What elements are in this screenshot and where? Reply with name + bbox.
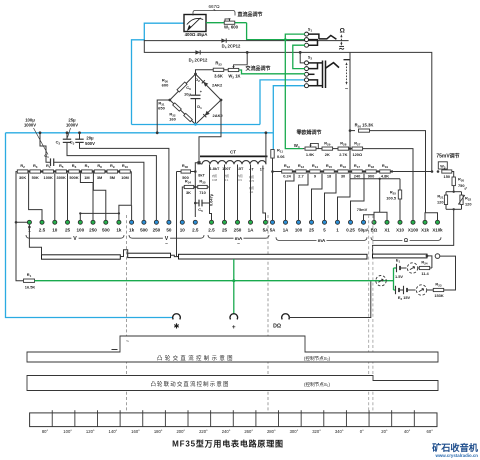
resistor R20 750 [452, 177, 455, 186]
svg-text:S1: S1 [308, 28, 313, 33]
svg-text:X1: X1 [384, 227, 390, 232]
svg-text:10: 10 [180, 227, 186, 232]
svg-text:R19: R19 [382, 163, 388, 169]
contacts DC current blue [270, 220, 274, 224]
svg-text:500K: 500K [69, 175, 78, 180]
svg-text:120Ω: 120Ω [352, 152, 362, 157]
svg-text:R24: R24 [421, 259, 427, 265]
svg-text:R17: R17 [354, 163, 360, 169]
resistor R17 240 [352, 170, 363, 173]
wire 5A DC contact [272, 172, 274, 221]
svg-text:75mV: 75mV [357, 207, 368, 212]
svg-text:R1: R1 [27, 272, 32, 278]
transformer core bar [200, 155, 268, 157]
svg-text:3M: 3M [97, 175, 102, 180]
svg-text:R15: R15 [326, 163, 332, 169]
wire 5A AC contact to winding end [263, 166, 266, 221]
svg-text:R10: R10 [122, 163, 128, 169]
svg-text:1T: 1T [260, 168, 265, 172]
capacitor C6 10uF bridge center [195, 74, 197, 95]
svg-text:100: 100 [295, 227, 303, 232]
svg-text:R21: R21 [437, 193, 443, 199]
svg-text:280°: 280° [267, 429, 276, 434]
resistor R11 0.06 shunt [272, 158, 274, 172]
dashed connector circle E1 [407, 263, 417, 273]
wire cyan S2 contact5 to common bus [273, 86, 305, 151]
svg-text:W4: W4 [294, 143, 300, 149]
svg-text:E1: E1 [396, 258, 401, 264]
cam diagram bar AC-DC control [27, 336, 438, 362]
diode D4 2CP12 line [144, 39, 348, 42]
transformer left end junction [199, 163, 202, 164]
cam diagram bar linked control [27, 376, 438, 391]
brace DC mA [276, 237, 317, 240]
svg-text:0.08: 0.08 [212, 178, 218, 182]
resistor R30 600 top-left arm [177, 82, 187, 92]
brace AC mA [208, 235, 234, 238]
resistor R4 100K [43, 170, 54, 173]
svg-text:3.6K: 3.6K [214, 73, 223, 78]
wire junction to 25V contact [67, 173, 69, 220]
svg-text:R22: R22 [465, 195, 471, 201]
svg-text:2.7K: 2.7K [339, 152, 347, 157]
svg-text:100.5: 100.5 [386, 196, 397, 201]
svg-text:1k: 1k [116, 227, 122, 232]
svg-text:4.8K: 4.8K [381, 174, 389, 179]
wire C1 to AC 500 contact [54, 162, 144, 220]
svg-text:矿石收音机: 矿石收音机 [432, 442, 479, 453]
svg-text:C1: C1 [44, 153, 49, 159]
dashed separator V sections [126, 215, 128, 412]
wire junction to 10V contact [54, 173, 56, 220]
svg-text:8kT: 8kT [198, 174, 205, 178]
wire 5mA contact staircase [325, 172, 337, 221]
contacts AC voltage blue [130, 220, 134, 224]
bridge junction dots [194, 73, 197, 76]
svg-text:V: V [165, 236, 169, 242]
resistor R3 50K [30, 170, 41, 173]
svg-text:60°: 60° [427, 429, 434, 434]
svg-text:10M: 10M [121, 175, 129, 180]
svg-text:650: 650 [158, 106, 165, 111]
wire X1k X10k bracket [425, 213, 438, 220]
svg-text:内阻: 内阻 [212, 174, 218, 178]
svg-text:0.76: 0.76 [249, 179, 255, 183]
diode D1 2AK2 bottom-right arm [203, 111, 210, 118]
svg-text:C6: C6 [186, 85, 191, 91]
resistor R7 1M [82, 170, 93, 173]
capacitor C2 25uF 1000V [66, 133, 68, 139]
battery E2 15V [394, 289, 396, 291]
wire BOhm X1 bracket [374, 212, 387, 220]
svg-text:1000V: 1000V [66, 123, 78, 128]
brace AC volts [129, 235, 163, 238]
wire bridge right vertex down to transformer [199, 100, 221, 163]
diode D3 2CP12 line [144, 41, 247, 53]
svg-text:50μA: 50μA [358, 227, 370, 232]
svg-text:~: ~ [165, 242, 168, 247]
wire R33 to W2 [224, 69, 228, 71]
svg-text:R13: R13 [298, 163, 304, 169]
svg-text:DΩ: DΩ [273, 323, 281, 329]
resistor R2 30K [17, 170, 28, 173]
resistor R24 11.4 [418, 267, 419, 269]
svg-text:(控制节点S₁): (控制节点S₁) [304, 381, 331, 388]
wire 1mA contact staircase [338, 179, 351, 220]
svg-text:W2 1K: W2 1K [228, 73, 240, 79]
svg-text:C2: C2 [56, 140, 61, 146]
svg-text:内阻: 内阻 [237, 174, 243, 178]
terminal circle bar4 [435, 254, 440, 259]
wire 25mA contact staircase [312, 172, 323, 221]
resistor R15 18 [324, 170, 335, 173]
svg-text:20°: 20° [381, 429, 388, 434]
svg-text:500: 500 [140, 227, 148, 232]
svg-text:100T: 100T [222, 167, 231, 171]
potentiometer W4 1.9K [303, 148, 304, 150]
svg-text:内阻: 内阻 [249, 175, 255, 179]
svg-text:0°: 0° [360, 429, 364, 434]
svg-text:200°: 200° [176, 429, 185, 434]
svg-text:1A: 1A [248, 227, 255, 232]
dashed connector circle on bus [376, 276, 386, 286]
switch S2 rotor bars [322, 61, 324, 89]
svg-text:20μ: 20μ [86, 135, 94, 140]
wire cyan meter-minus to bridge bottom and S2 contact4 [132, 124, 261, 126]
battery E1 1.5V [394, 267, 397, 269]
svg-text:600: 600 [162, 83, 169, 88]
svg-text:2.5: 2.5 [192, 227, 199, 232]
wire staircase to 250V contact [80, 172, 93, 221]
svg-text:180°: 180° [154, 429, 163, 434]
wire D3 node to right side vertical [247, 52, 432, 171]
resistor R18 900 [366, 170, 377, 173]
wire cyan left rail down to common jack [6, 133, 174, 318]
svg-text:500V: 500V [85, 141, 95, 146]
wire cyan common bus horizontal [6, 132, 274, 134]
svg-text:11.4: 11.4 [421, 271, 429, 276]
resistor R25 100.5 [399, 179, 401, 190]
svg-text:220°: 220° [199, 429, 208, 434]
resistor R9 5M [107, 170, 118, 173]
brace ohms [371, 237, 402, 240]
S2 range arrow dashed [346, 64, 348, 84]
svg-text:R12: R12 [284, 163, 290, 169]
svg-text:30K: 30K [19, 175, 26, 180]
svg-text:250: 250 [89, 227, 97, 232]
svg-text:400Ω 45μA: 400Ω 45μA [185, 32, 209, 37]
svg-text:R2: R2 [20, 163, 25, 169]
resistor R35 710 [195, 186, 198, 188]
bridge rectifier arms [170, 74, 221, 124]
bar1 to bar2 jog [120, 250, 127, 257]
svg-text:+: + [232, 324, 236, 331]
wire bridge top to R33 [196, 70, 214, 74]
svg-text:240: 240 [354, 174, 361, 179]
wire DOhm jack riser [289, 281, 371, 317]
wire 0.25mA contact staircase [351, 172, 365, 221]
wire 1V contact to bar1 [29, 225, 41, 255]
svg-text:25: 25 [65, 227, 71, 232]
svg-text:120: 120 [437, 200, 444, 205]
resistor R5 300K [56, 170, 67, 173]
switch S1 contact bars [309, 34, 319, 39]
contacts DC voltage green [27, 220, 31, 224]
svg-text:75mV调节: 75mV调节 [436, 153, 459, 160]
svg-text:E2 15V: E2 15V [398, 295, 411, 301]
svg-text:10μ: 10μ [184, 91, 191, 96]
svg-text:710: 710 [199, 190, 206, 195]
resistor R14 9 [310, 170, 321, 173]
wire 8kT node down through R36 chain [195, 163, 199, 217]
wire R2 left to 1V contact [16, 172, 27, 223]
svg-text:140°: 140° [109, 429, 118, 434]
jack DOhm [282, 314, 290, 320]
wire R25 line [350, 178, 400, 180]
svg-text:X100: X100 [408, 227, 419, 232]
potentiometer W1 600 DC calibration [224, 21, 235, 24]
svg-text:www.crystalradio.cn: www.crystalradio.cn [434, 453, 478, 458]
wire green long vertical to W4 zero-ohm pot [285, 40, 303, 149]
capacitor C5 0.047uF [195, 202, 199, 204]
wire bridge left vertex to common bus [157, 100, 170, 133]
wire C2 to AC 250V contact staircase [67, 142, 156, 220]
brace DC volts [26, 235, 71, 238]
svg-text:0.1: 0.1 [225, 178, 229, 182]
svg-text:1.5V: 1.5V [395, 274, 403, 279]
switch wafer bar 2 [128, 253, 171, 257]
angle scale bar [30, 413, 437, 427]
svg-text:5A: 5A [270, 227, 276, 232]
wire DC voltage divider row [17, 171, 132, 173]
svg-text:2AK2: 2AK2 [213, 113, 224, 118]
wire green plus jack to bar3 [233, 259, 235, 314]
svg-text:50: 50 [166, 227, 172, 232]
wire R10 right to 1kV contact [119, 172, 131, 221]
contacts resistance green [372, 220, 376, 224]
svg-text:1.9K: 1.9K [306, 152, 314, 157]
svg-text:零欧姆调节: 零欧姆调节 [296, 129, 321, 136]
svg-text:R26 15.3K: R26 15.3K [355, 122, 374, 128]
svg-text:R16: R16 [340, 163, 346, 169]
switch S1 arm [319, 35, 337, 39]
wire junction to 2.5V contact [29, 173, 42, 220]
svg-text:160°: 160° [131, 429, 140, 434]
capacitor C1 100uF 1000V on AC 1kV line [40, 133, 51, 162]
wire C3 to AC 50V contact staircase [80, 142, 169, 220]
switch S2 arm [326, 63, 340, 69]
jack plus [230, 314, 238, 320]
resistor R28 2.7K [333, 148, 338, 150]
resistor 150 [442, 170, 452, 173]
resistor R12 0.24 [282, 170, 293, 173]
svg-text:300K: 300K [57, 175, 66, 180]
diode D2 2AK2 top-right arm [202, 80, 209, 87]
wire 150 to R20 [452, 172, 454, 178]
svg-text:50K: 50K [32, 175, 39, 180]
svg-text:340°: 340° [335, 429, 344, 434]
svg-text:R8: R8 [97, 163, 102, 169]
wire tie line 100V to 1kV node [80, 212, 119, 214]
svg-text:0.9: 0.9 [238, 178, 242, 182]
switch S2 contact bars [309, 62, 323, 64]
jack common star [173, 314, 181, 320]
potentiometer W2 1K AC calibration [228, 68, 239, 71]
svg-text:1.8kT: 1.8kT [210, 167, 220, 171]
svg-text:40°: 40° [404, 429, 411, 434]
switch wafer bar 4 [373, 254, 428, 258]
resistor R32 160 lower-left arm [184, 113, 193, 121]
wire R24 right lead [430, 267, 432, 269]
svg-text:X10k: X10k [432, 227, 443, 232]
svg-text:凸轮交直流控制示意图: 凸轮交直流控制示意图 [157, 354, 235, 362]
resistor R34 3K [182, 187, 184, 220]
svg-text:D1: D1 [197, 104, 202, 110]
svg-text:凸轮联动交直流控制示意图: 凸轮联动交直流控制示意图 [150, 380, 229, 388]
svg-text:~: ~ [126, 340, 129, 345]
svg-text:R23: R23 [435, 281, 441, 287]
wire W4 row to X100 contact [363, 149, 413, 220]
wire R36 left down to switch bar3 [177, 172, 179, 257]
wire D3 node down to W2 wiper [246, 52, 248, 64]
transformer winding [202, 161, 266, 165]
svg-text:120°: 120° [86, 429, 95, 434]
dashed connector circle E2 [416, 285, 426, 295]
switch S1 contacts [305, 32, 309, 36]
svg-text:160: 160 [169, 117, 176, 122]
svg-text:W3: W3 [440, 165, 445, 170]
svg-text:mA: mA [318, 238, 326, 244]
resistor R36 500 [177, 171, 181, 173]
svg-text:3K: 3K [186, 190, 191, 195]
wire battery bridge to switch bar4 [373, 209, 454, 254]
resistor R13 2.7 [296, 170, 307, 173]
svg-text:直流品调节: 直流品调节 [237, 11, 262, 18]
svg-text:240°: 240° [222, 429, 231, 434]
svg-text:2.7: 2.7 [298, 174, 303, 179]
wire bar4 to battery branch [426, 255, 429, 258]
wire 1A DC contact staircase [286, 172, 295, 221]
S1 range arrow dashed [340, 36, 342, 44]
resistor R29 2K [316, 148, 322, 150]
svg-text:交流品调节: 交流品调节 [245, 65, 270, 72]
resistor R31 650 lower-left arm [173, 103, 182, 111]
svg-text:0.06: 0.06 [277, 154, 285, 159]
resistor R1 16.5K [16, 222, 23, 280]
wire shunt row [273, 171, 433, 173]
contacts AC current green [209, 220, 213, 224]
switch S2 contacts [305, 61, 309, 65]
svg-text:2.5: 2.5 [39, 227, 46, 232]
wire row to 150 resistor [431, 170, 434, 173]
wire 100V contact stub [79, 213, 81, 220]
svg-text:X1k: X1k [421, 227, 429, 232]
svg-text:1000V: 1000V [24, 123, 36, 128]
svg-text:320°: 320° [312, 429, 321, 434]
svg-text:CT: CT [230, 149, 236, 154]
svg-text:300°: 300° [290, 429, 299, 434]
wire green meter plus through W1 to switches [206, 22, 247, 24]
svg-text:500: 500 [102, 227, 110, 232]
wire right vertical from D3-D4 node down [349, 52, 351, 178]
svg-text:1A: 1A [283, 227, 289, 232]
svg-text:R28: R28 [340, 140, 346, 146]
svg-text:R5: R5 [59, 163, 64, 169]
svg-text:R20: R20 [458, 176, 464, 182]
svg-text:2.5: 2.5 [208, 227, 215, 232]
transformer 2.5mA tap via R35 node [210, 165, 212, 221]
resistor R26 15.3K zero ohm branch [350, 130, 355, 132]
svg-text:R34: R34 [185, 179, 191, 185]
svg-text:5M: 5M [110, 175, 115, 180]
wire S2 contact1 to D3 node [300, 52, 305, 63]
svg-text:R7: R7 [85, 163, 90, 169]
svg-text:100K: 100K [44, 175, 53, 180]
svg-text:0.047μ: 0.047μ [209, 193, 214, 206]
wire green battery bus [35, 280, 394, 282]
svg-text:1k: 1k [129, 227, 135, 232]
svg-text:S2: S2 [308, 55, 313, 60]
svg-text:C3: C3 [70, 140, 75, 146]
svg-text:80°: 80° [42, 429, 49, 434]
svg-text:D4 2CP12: D4 2CP12 [222, 44, 241, 50]
resistor R8 3M [94, 170, 105, 173]
potentiometer W3 box [438, 162, 447, 169]
wire green S1 contact1 branch [285, 34, 305, 40]
svg-text:BΩ: BΩ [371, 227, 378, 232]
svg-text:0.24: 0.24 [283, 174, 291, 179]
resistor R19 4.8K [380, 170, 391, 173]
wire R20 to battery bridge box [453, 186, 455, 192]
svg-text:V: V [73, 236, 77, 242]
switch wafer bar 3 [179, 254, 368, 259]
wire green W2 output to S2 contact3 [239, 70, 305, 74]
wire 100mA contact staircase [299, 172, 309, 221]
resistor R27 120ohm [349, 148, 352, 150]
svg-text:~: ~ [237, 242, 240, 247]
svg-text:R36: R36 [182, 163, 188, 169]
svg-text:100: 100 [76, 227, 84, 232]
svg-text:R27: R27 [354, 140, 360, 146]
wire staircase to 500V contact [93, 172, 105, 221]
transformer taps down to AC mA contacts [224, 165, 226, 221]
svg-text:D3 2CP12: D3 2CP12 [189, 58, 208, 64]
wire green battery split [393, 268, 395, 290]
wire 50uA contact stub [364, 215, 375, 220]
battery bridge box R21 R22 [446, 191, 462, 193]
svg-text:R25: R25 [390, 189, 396, 195]
svg-text:R4: R4 [46, 163, 51, 169]
resistor R23 153K [427, 289, 433, 291]
svg-text:100°: 100° [63, 429, 72, 434]
svg-text:C5: C5 [198, 207, 203, 213]
dashed separator ohm section double [368, 215, 370, 412]
wire R23 to terminal circle [440, 256, 456, 290]
svg-text:1M: 1M [84, 175, 89, 180]
wire green S1 contact3 to S2 contact2 [293, 45, 305, 68]
svg-text:120: 120 [465, 202, 472, 207]
svg-text:260°: 260° [244, 429, 253, 434]
resistor R10 10M [120, 170, 131, 173]
svg-text:30: 30 [341, 174, 345, 179]
svg-text:W1 600: W1 600 [224, 24, 239, 30]
svg-text:R35: R35 [199, 179, 205, 185]
svg-text:16.5K: 16.5K [25, 284, 36, 289]
galvanometer meter 400ohm 45uA [184, 15, 206, 32]
dashed separator mA section [267, 215, 269, 412]
transformer right end to bus [265, 133, 267, 164]
svg-text:R33: R33 [215, 61, 222, 67]
